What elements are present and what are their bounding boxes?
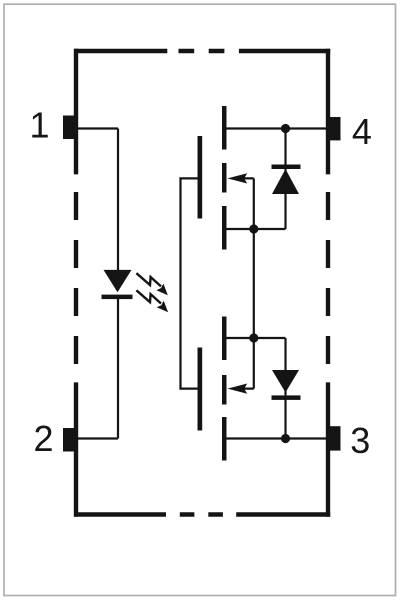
svg-text:3: 3 [350,420,370,461]
pin 3 pad [330,426,341,450]
LED D1 triangle [104,270,132,292]
package outline top edge [74,49,330,53]
Q1 body arrow [228,173,254,229]
MOSFET Q1 channel segment drain [222,106,227,150]
pin 1 pad [63,116,75,140]
wire Q1 source lead [227,228,286,230]
diode D3 triangle [272,370,299,393]
wire LED anode vertical [117,129,119,271]
light emission arrow 2 [136,290,168,312]
svg-text:2: 2 [33,418,53,459]
wire Q1 drain to pin4 [227,127,330,129]
wire pin2 to LED cathode [75,437,119,439]
diode D2 lead vertical [284,129,286,230]
pin 2 pad [63,428,75,452]
MOSFET Q1 channel segment body [222,163,227,193]
wire Q2 drain to pin3 [227,437,330,439]
junction node source Q1 [249,224,258,233]
svg-text:1: 1 [29,104,49,145]
gate drive line vertical [179,178,181,388]
wire LED cathode vertical [117,299,119,439]
svg-text:4: 4 [352,111,372,152]
package outline bottom edge [74,512,330,516]
wire gate line to Q2 gate [179,388,197,390]
MOSFET Q2 channel segment body [222,375,227,405]
pin 4 pad [330,117,341,140]
LED D1 cathode bar [102,295,133,300]
junction node drain Q2 [281,434,290,443]
MOSFET Q2 channel segment source [222,317,227,361]
MOSFET Q1 gate bar [198,136,203,219]
diode D3 lead vertical [284,338,286,439]
MOSFET Q2 gate bar [198,348,203,431]
wire common source vertical [253,229,255,338]
wire pin1 to LED anode [75,127,119,129]
MOSFET Q1 channel segment source [222,206,227,250]
wire gate line to Q1 gate [179,177,197,179]
diode D2 cathode bar [272,165,301,170]
MOSFET Q2 channel segment drain [222,417,227,461]
diode D3 cathode bar [272,395,301,400]
wire Q2 source lead [227,337,286,339]
Q2 body arrow [228,338,254,394]
package outline left edge [74,49,78,517]
junction node drain Q1 [281,124,290,133]
package outline right edge [326,49,330,517]
diode D2 triangle [272,169,299,194]
junction node source Q2 [249,333,258,342]
light emission arrow 1 [136,273,167,295]
